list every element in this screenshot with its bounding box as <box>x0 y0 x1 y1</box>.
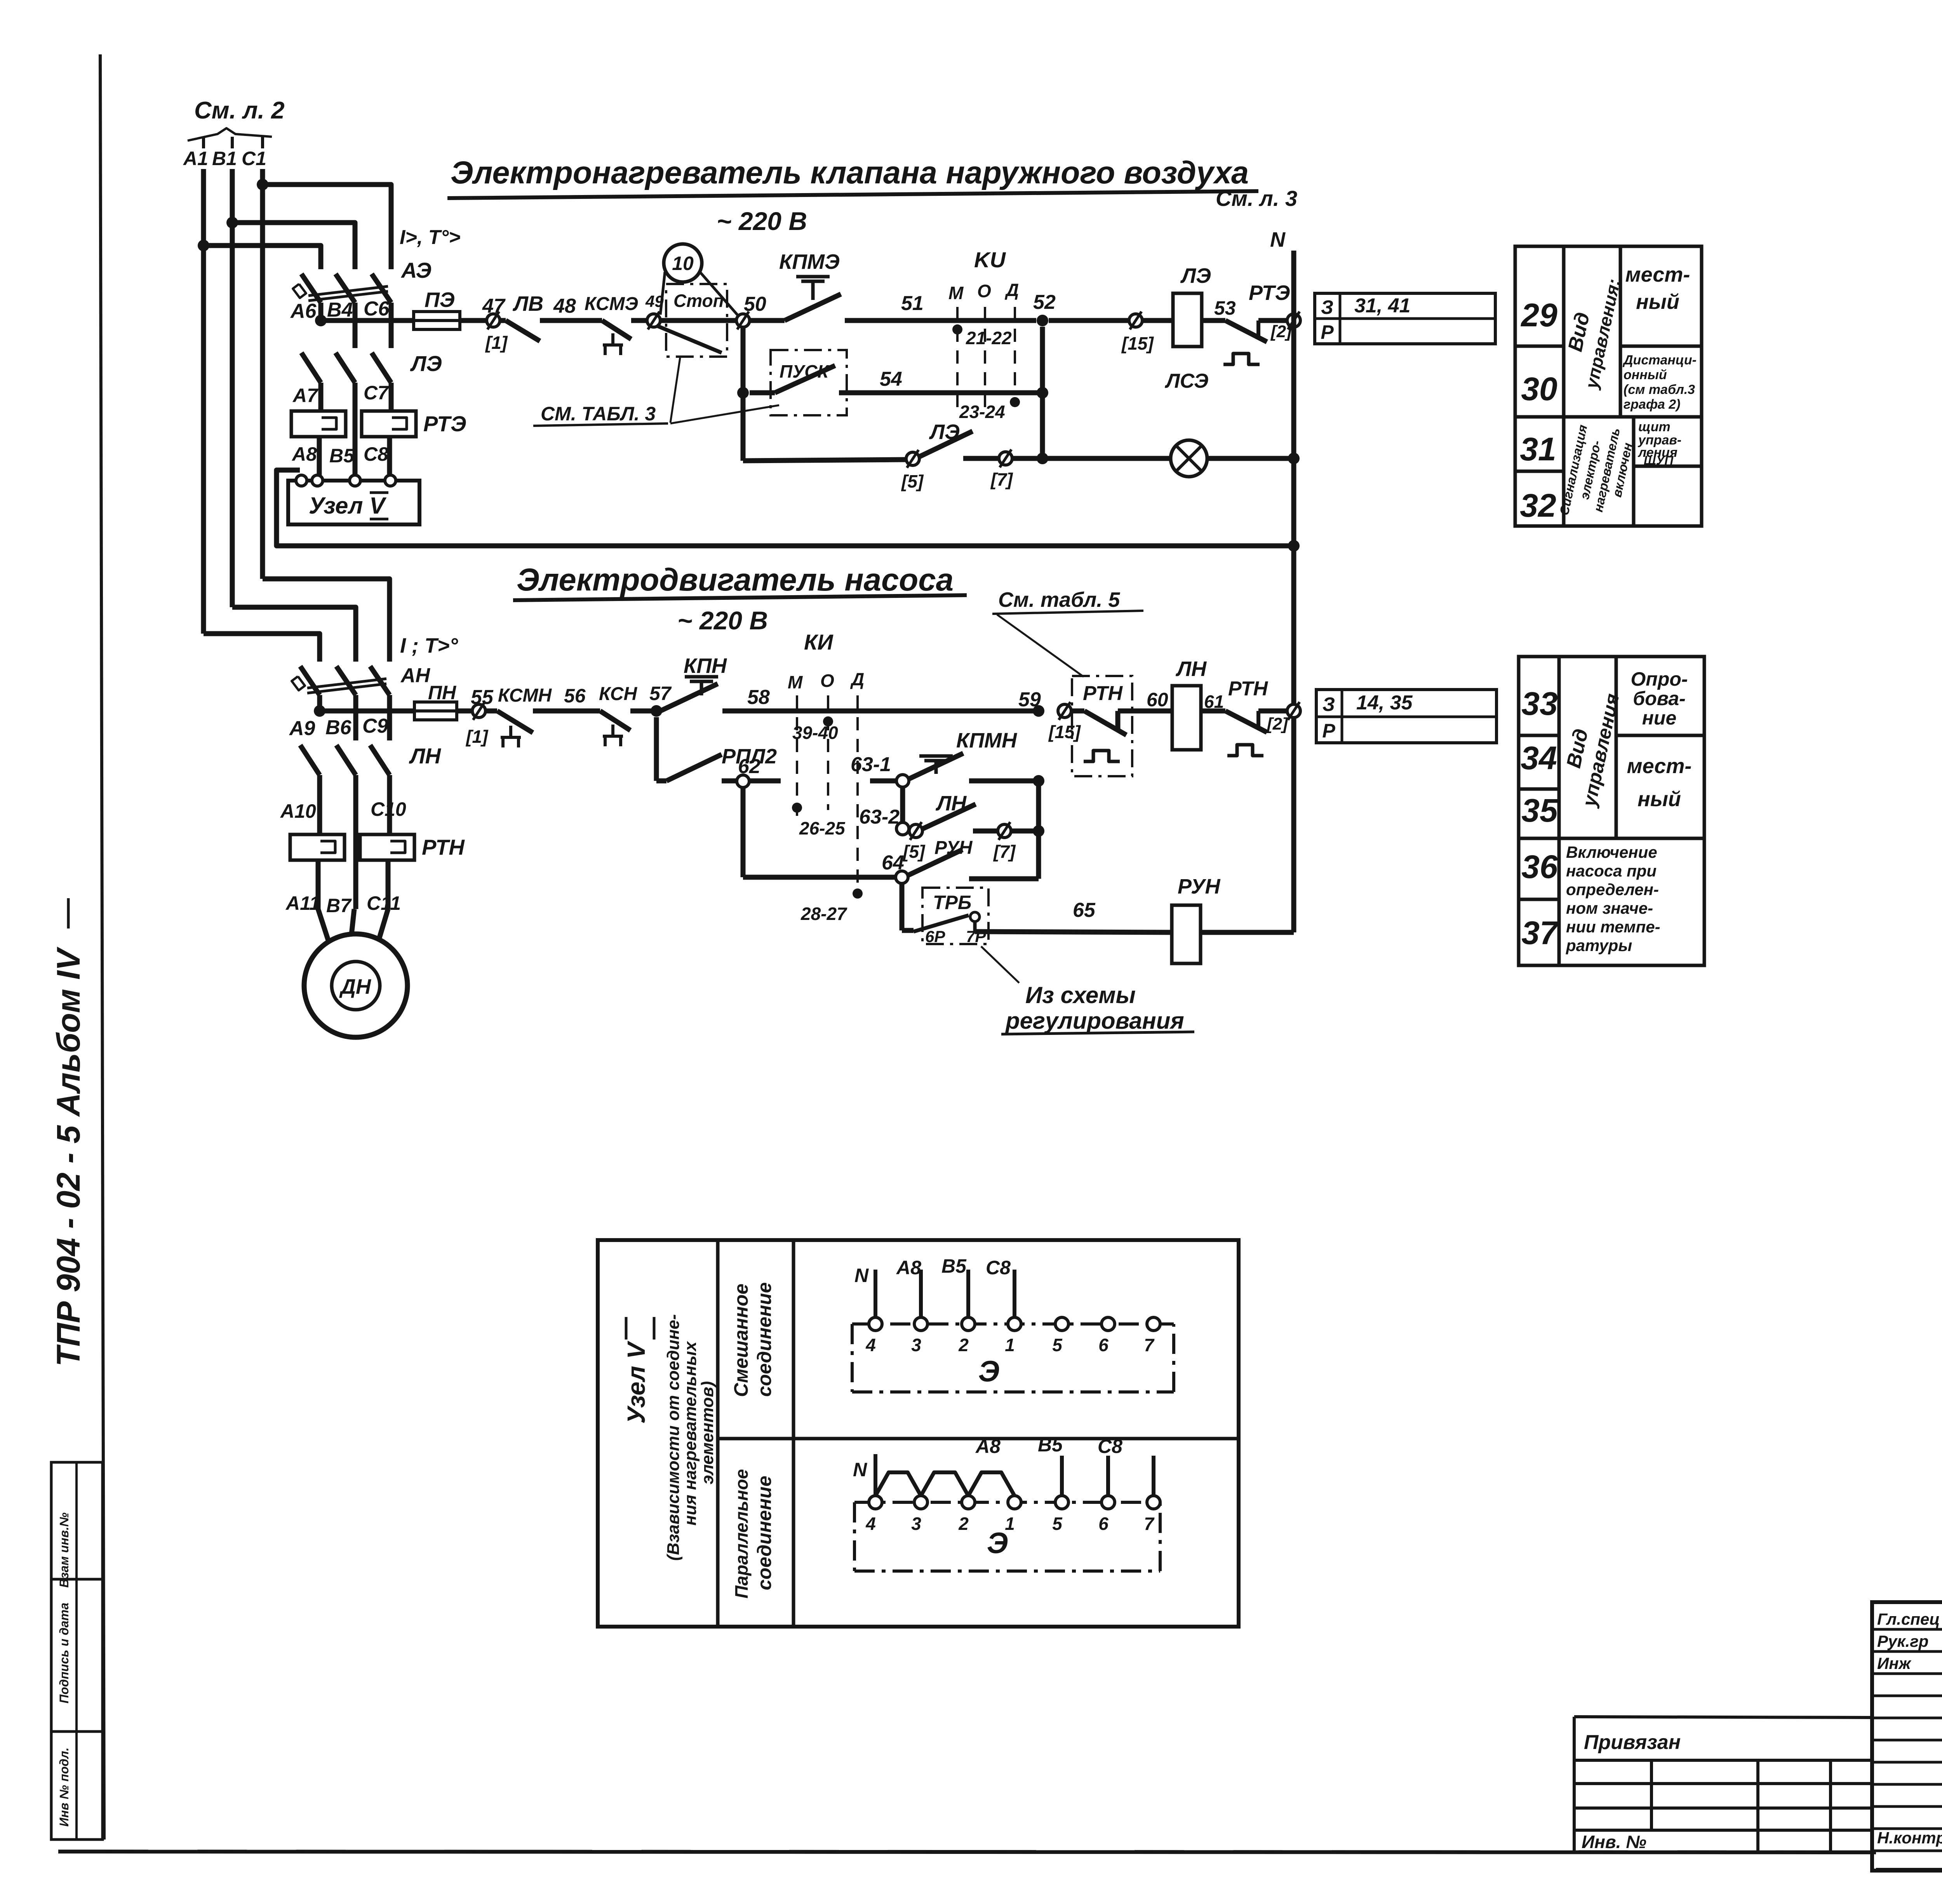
svg-text:52: 52 <box>1033 291 1056 314</box>
svg-text:31, 41: 31, 41 <box>1354 294 1411 317</box>
svg-text:нии темпе-: нии темпе- <box>1566 918 1660 936</box>
svg-text:онный: онный <box>1624 368 1667 382</box>
svg-text:Узел V: Узел V <box>622 1340 650 1424</box>
svg-text:~ 220 В: ~ 220 В <box>717 207 807 235</box>
svg-text:мест-: мест- <box>1627 754 1692 778</box>
svg-text:соединение: соединение <box>753 1476 775 1590</box>
svg-text:В1: В1 <box>212 148 237 169</box>
svg-text:33: 33 <box>1521 685 1557 722</box>
svg-text:ный: ный <box>1637 787 1681 811</box>
svg-text:51: 51 <box>901 292 924 315</box>
svg-text:Инв. №: Инв. № <box>1582 1832 1646 1852</box>
svg-text:58: 58 <box>747 686 770 709</box>
svg-text:определен-: определен- <box>1566 880 1659 899</box>
svg-text:3: 3 <box>911 1514 921 1534</box>
svg-text:А8: А8 <box>291 443 317 465</box>
svg-text:А1: А1 <box>183 148 208 169</box>
svg-text:65: 65 <box>1073 899 1096 922</box>
svg-text:Электродвигатель насоса: Электродвигатель насоса <box>517 562 954 598</box>
svg-text:1: 1 <box>1005 1335 1015 1355</box>
svg-text:В7: В7 <box>326 895 352 916</box>
svg-text:35: 35 <box>1521 792 1558 829</box>
svg-text:С8: С8 <box>986 1257 1011 1279</box>
svg-text:См. табл. 5: См. табл. 5 <box>998 588 1120 611</box>
svg-text:ЩУП: ЩУП <box>1644 453 1674 467</box>
svg-text:АЭ: АЭ <box>400 258 432 282</box>
svg-text:графа 2): графа 2) <box>1624 397 1681 412</box>
svg-text:[7]: [7] <box>993 841 1016 862</box>
svg-text:ратуры: ратуры <box>1566 936 1632 955</box>
svg-text:N: N <box>1270 228 1286 251</box>
svg-text:ЛЭ: ЛЭ <box>1180 264 1211 287</box>
svg-text:4: 4 <box>865 1514 876 1534</box>
svg-text:РТЭ: РТЭ <box>1249 281 1290 305</box>
svg-text:АН: АН <box>400 664 431 687</box>
svg-text:32: 32 <box>1520 487 1556 524</box>
svg-text:39-40: 39-40 <box>792 723 838 743</box>
svg-text:(Взависимости от соедине-: (Взависимости от соедине- <box>664 1314 683 1561</box>
svg-text:5: 5 <box>1052 1514 1063 1534</box>
svg-text:См. л. 2: См. л. 2 <box>194 97 285 124</box>
svg-text:КСМН: КСМН <box>498 685 552 706</box>
svg-text:62: 62 <box>738 755 760 778</box>
svg-text:ЛСЭ: ЛСЭ <box>1164 370 1208 392</box>
svg-text:(см табл.3: (см табл.3 <box>1624 382 1695 397</box>
svg-text:КПМН: КПМН <box>956 729 1017 752</box>
svg-text:[5]: [5] <box>901 471 924 491</box>
svg-text:мест-: мест- <box>1625 263 1690 286</box>
svg-text:7: 7 <box>1144 1514 1155 1534</box>
svg-text:34: 34 <box>1521 740 1557 776</box>
svg-text:З: З <box>1323 693 1335 715</box>
svg-text:56: 56 <box>564 685 586 707</box>
svg-text:Параллельное: Параллельное <box>731 1469 752 1598</box>
svg-text:КИ: КИ <box>804 630 834 654</box>
svg-text:КПМЭ: КПМЭ <box>779 250 840 273</box>
svg-text:элементов): элементов) <box>698 1381 717 1484</box>
svg-text:О: О <box>820 671 834 691</box>
svg-text:6: 6 <box>1098 1335 1108 1355</box>
svg-text:3: 3 <box>911 1335 921 1355</box>
svg-text:щит: щит <box>1638 420 1671 434</box>
svg-text:РТН: РТН <box>1228 678 1268 700</box>
svg-text:Дистанци-: Дистанци- <box>1622 353 1697 368</box>
svg-text:ПН: ПН <box>428 682 456 704</box>
svg-text:Опро-: Опро- <box>1631 668 1688 690</box>
svg-text:соединение: соединение <box>753 1282 775 1397</box>
svg-text:Включение: Включение <box>1566 843 1657 861</box>
svg-text:насоса при: насоса при <box>1566 862 1657 880</box>
svg-text:Подпись и дата: Подпись и дата <box>57 1603 71 1703</box>
svg-text:Взам инв.№: Взам инв.№ <box>57 1512 71 1588</box>
svg-text:10: 10 <box>672 253 694 274</box>
svg-text:РТЭ: РТЭ <box>423 411 466 436</box>
svg-text:30: 30 <box>1521 371 1557 407</box>
svg-text:М: М <box>948 283 964 303</box>
svg-text:KU: KU <box>974 247 1006 272</box>
svg-text:N: N <box>854 1265 869 1286</box>
svg-text:С8: С8 <box>1098 1435 1122 1457</box>
svg-text:[2]: [2] <box>1266 714 1288 733</box>
svg-text:Рук.гр: Рук.гр <box>1877 1632 1928 1650</box>
svg-text:А11: А11 <box>285 892 320 914</box>
svg-text:Электронагреватель клапана: Электронагреватель клапана наружного воз… <box>451 155 1249 190</box>
svg-text:КСМЭ: КСМЭ <box>585 294 638 314</box>
svg-text:Смешанное: Смешанное <box>730 1284 752 1397</box>
svg-text:23-24: 23-24 <box>959 402 1005 422</box>
svg-text:С7: С7 <box>364 382 389 404</box>
svg-text:Н.контр.: Н.контр. <box>1877 1829 1942 1847</box>
svg-text:60: 60 <box>1147 689 1168 711</box>
svg-text:ЛН: ЛН <box>409 744 441 768</box>
svg-text:РТН: РТН <box>1083 682 1123 705</box>
svg-text:ном значе-: ном значе- <box>1566 899 1653 917</box>
svg-text:Э: Э <box>987 1527 1008 1560</box>
svg-text:ТРБ: ТРБ <box>933 892 971 913</box>
svg-text:6: 6 <box>1098 1514 1108 1534</box>
svg-text:В4: В4 <box>327 299 353 321</box>
svg-text:ния нагревательных: ния нагревательных <box>681 1341 700 1526</box>
svg-text:С10: С10 <box>371 798 406 820</box>
svg-text:ЛЭ: ЛЭ <box>410 351 442 376</box>
svg-text:4: 4 <box>865 1335 876 1355</box>
svg-text:С1: С1 <box>242 148 266 169</box>
svg-text:61: 61 <box>1204 692 1224 712</box>
svg-text:СМ. ТАБЛ. 3: СМ. ТАБЛ. 3 <box>541 403 656 425</box>
svg-text:Инж: Инж <box>1877 1654 1912 1672</box>
svg-text:Р: Р <box>1322 720 1335 742</box>
svg-text:ПЭ: ПЭ <box>425 288 455 312</box>
svg-text:N: N <box>853 1459 867 1481</box>
svg-text:А9: А9 <box>289 717 315 740</box>
svg-text:А8: А8 <box>896 1257 921 1279</box>
svg-text:Д: Д <box>1004 280 1019 300</box>
svg-text:[1]: [1] <box>465 726 489 747</box>
svg-text:Привязан: Привязан <box>1584 1731 1681 1754</box>
svg-text:См. л. 3: См. л. 3 <box>1216 186 1297 211</box>
svg-text:РУН: РУН <box>1178 875 1221 898</box>
svg-text:I>, Т°>: I>, Т°> <box>400 226 461 249</box>
svg-text:64: 64 <box>882 852 904 874</box>
svg-text:С9: С9 <box>362 715 388 737</box>
svg-text:регулирования: регулирования <box>1005 1008 1184 1034</box>
svg-text:[15]: [15] <box>1048 722 1081 742</box>
svg-text:~ 220 В: ~ 220 В <box>677 606 768 635</box>
svg-text:[5]: [5] <box>902 841 926 862</box>
svg-text:Д: Д <box>850 669 864 689</box>
svg-text:[7]: [7] <box>990 469 1013 490</box>
svg-text:КСН: КСН <box>599 684 638 704</box>
svg-text:I ; Т>°: I ; Т>° <box>400 634 458 657</box>
svg-text:Из схемы: Из схемы <box>1025 982 1136 1008</box>
svg-text:26-25: 26-25 <box>799 818 846 838</box>
svg-text:7: 7 <box>1144 1335 1155 1355</box>
svg-text:ЛЭ: ЛЭ <box>929 420 960 444</box>
svg-text:50: 50 <box>744 293 766 315</box>
svg-text:КПН: КПН <box>684 654 727 678</box>
svg-text:5: 5 <box>1052 1335 1063 1355</box>
svg-text:ТПР 904 - 02 - 5 Альбом: ТПР 904 - 02 - 5 Альбом IV <box>50 947 87 1367</box>
svg-text:В6: В6 <box>325 716 352 739</box>
svg-text:С8: С8 <box>364 443 388 465</box>
svg-text:53: 53 <box>1214 297 1236 319</box>
svg-text:48: 48 <box>553 295 576 317</box>
svg-text:28-27: 28-27 <box>800 904 847 924</box>
svg-text:63-2: 63-2 <box>859 806 900 828</box>
svg-text:29: 29 <box>1520 297 1557 333</box>
svg-text:ЛН: ЛН <box>935 792 967 815</box>
svg-text:бова-: бова- <box>1633 688 1686 709</box>
svg-text:[15]: [15] <box>1121 333 1154 354</box>
svg-text:В5: В5 <box>1038 1434 1063 1456</box>
svg-text:2: 2 <box>958 1335 969 1355</box>
svg-text:А7: А7 <box>292 385 318 406</box>
svg-text:59: 59 <box>1018 688 1041 711</box>
svg-text:31: 31 <box>1520 431 1556 467</box>
svg-text:С11: С11 <box>367 892 401 914</box>
svg-text:З: З <box>1321 296 1333 318</box>
svg-text:С6: С6 <box>364 298 390 320</box>
svg-text:[1]: [1] <box>485 333 508 353</box>
svg-text:А6: А6 <box>290 300 317 322</box>
svg-text:21-22: 21-22 <box>966 328 1012 348</box>
svg-text:ние: ние <box>1642 707 1677 729</box>
svg-text:57: 57 <box>649 683 672 704</box>
svg-text:37: 37 <box>1521 915 1559 951</box>
svg-text:А10: А10 <box>280 800 316 822</box>
svg-text:А8: А8 <box>975 1435 1001 1457</box>
svg-text:Э: Э <box>978 1355 1000 1388</box>
svg-text:Р: Р <box>1321 321 1334 343</box>
svg-text:В5: В5 <box>329 445 355 467</box>
svg-text:54: 54 <box>880 368 902 390</box>
svg-text:ный: ный <box>1636 290 1679 314</box>
svg-text:36: 36 <box>1521 848 1558 885</box>
svg-text:ЛН: ЛН <box>1175 657 1207 681</box>
svg-text:Узел V: Узел V <box>309 493 387 519</box>
svg-text:ДН: ДН <box>339 975 371 998</box>
svg-text:6Р: 6Р <box>925 927 945 946</box>
svg-text:Инв № подл.: Инв № подл. <box>57 1747 71 1827</box>
svg-text:ЛВ: ЛВ <box>512 292 543 315</box>
svg-text:В5: В5 <box>941 1255 967 1277</box>
svg-text:М: М <box>788 672 803 692</box>
svg-text:63-1: 63-1 <box>851 753 891 776</box>
svg-text:О: О <box>977 281 991 301</box>
svg-text:2: 2 <box>958 1514 969 1534</box>
svg-text:РТН: РТН <box>422 835 465 859</box>
svg-text:14, 35: 14, 35 <box>1356 692 1413 714</box>
svg-text:Стоп: Стоп <box>673 291 724 311</box>
svg-text:Гл.спец: Гл.спец <box>1877 1610 1940 1628</box>
